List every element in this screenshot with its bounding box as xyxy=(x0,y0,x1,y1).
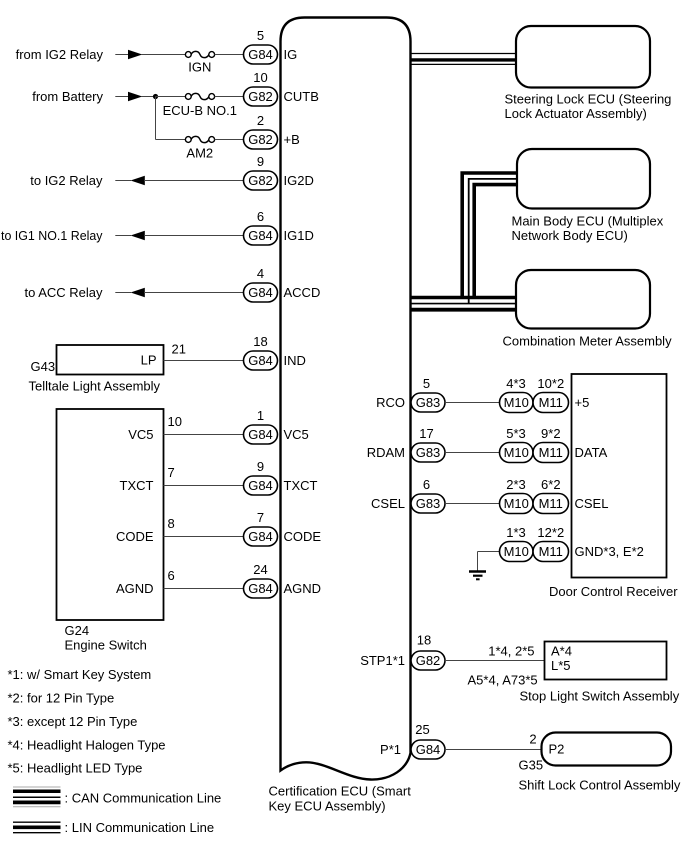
label: Telltale Light Assembly caption xyxy=(29,379,161,394)
pin number 5 xyxy=(257,28,264,43)
svg-text:G84: G84 xyxy=(248,427,273,442)
label: CSEL inside door control receiver xyxy=(575,496,609,511)
svg-text:: CAN Communication Line: : CAN Communication Line xyxy=(65,790,222,805)
svg-text:M11: M11 xyxy=(539,395,563,410)
svg-text:L*5: L*5 xyxy=(551,658,571,673)
label: VC5 inside engine switch xyxy=(128,427,153,442)
connector G82 pin +B xyxy=(244,130,278,149)
svg-text:G84: G84 xyxy=(248,529,273,544)
svg-text:G82: G82 xyxy=(248,89,273,104)
svg-text:Engine Switch: Engine Switch xyxy=(65,638,147,653)
component: Stop Light Switch Assembly box xyxy=(545,642,667,680)
note *5 xyxy=(8,761,143,776)
connector G82 pin CUTB xyxy=(244,87,278,106)
connector G84 pin TXCT xyxy=(244,476,278,495)
svg-text:G83: G83 xyxy=(416,445,441,460)
svg-text:GND*3, E*2: GND*3, E*2 xyxy=(575,544,644,559)
component: Door Control Receiver box xyxy=(572,374,667,578)
wire: CAN line branch up to main body ECU xyxy=(462,173,517,304)
wire: to IG2 Relay arrow from G82 pin 9 xyxy=(115,176,244,186)
label: TXCT pin name xyxy=(284,478,318,493)
node: to ACC Relay label xyxy=(24,285,103,300)
label: G35 designator xyxy=(519,758,544,773)
svg-text:to ACC Relay: to ACC Relay xyxy=(24,285,103,300)
wire: engine switch AGND to connector G84 xyxy=(164,588,245,590)
svg-text:AGND: AGND xyxy=(284,581,322,596)
svg-text:G35: G35 xyxy=(519,758,544,773)
svg-text:M11: M11 xyxy=(539,544,563,559)
svg-text:7: 7 xyxy=(257,510,264,525)
svg-text:6: 6 xyxy=(168,568,175,583)
svg-text:*2: for 12 Pin Type: *2: for 12 Pin Type xyxy=(8,691,115,706)
pin number 10 xyxy=(253,70,267,85)
svg-text:5: 5 xyxy=(257,28,264,43)
svg-text:5: 5 xyxy=(423,376,430,391)
wire: P to shift lock control xyxy=(445,749,542,751)
note *4 xyxy=(8,738,166,753)
label: Engine Switch caption xyxy=(65,638,147,653)
svg-text:5*3: 5*3 xyxy=(506,426,526,441)
svg-text:to IG1 NO.1 Relay: to IG1 NO.1 Relay xyxy=(1,228,103,243)
label: Shift Lock Control Assembly caption xyxy=(519,778,681,793)
svg-text:Key ECU Assembly): Key ECU Assembly) xyxy=(269,799,386,814)
label: IND pin name xyxy=(284,353,306,368)
svg-text:G84: G84 xyxy=(248,228,273,243)
fuse IGN xyxy=(185,51,214,74)
svg-text:G24: G24 xyxy=(65,623,90,638)
connector G82 pin IG2D xyxy=(244,171,278,190)
pin number 25 xyxy=(415,722,429,737)
wire: to ACC Relay arrow from G84 pin 4 xyxy=(115,288,244,298)
svg-text:2: 2 xyxy=(257,113,264,128)
wire: from IG2 Relay to fuse IGN xyxy=(115,50,185,60)
wire: ground to M10 xyxy=(478,552,501,571)
connector G83 pin RDAM xyxy=(411,443,445,462)
component: Combination Meter Assembly box xyxy=(516,270,650,329)
legend label: LIN Communication Line xyxy=(65,820,215,835)
label: IG1D pin name xyxy=(284,228,314,243)
component: Shift Lock Control Assembly box xyxy=(542,733,672,766)
pin number 10 (engine switch VC5) xyxy=(168,414,182,429)
svg-text:P2: P2 xyxy=(549,742,565,757)
label: A*4 inside stop light switch xyxy=(551,644,572,659)
label: DATA inside door control receiver xyxy=(575,445,608,460)
svg-text:4: 4 xyxy=(257,266,264,281)
label: CSEL pin name xyxy=(371,496,405,511)
svg-text:1: 1 xyxy=(257,408,264,423)
junction dot battery feed xyxy=(153,94,158,99)
label: VC5 pin name xyxy=(284,427,309,442)
svg-text:CODE: CODE xyxy=(284,529,322,544)
label: 1*4, 2*5 wire pins xyxy=(488,644,534,659)
node: to IG2 Relay label xyxy=(30,173,103,188)
svg-text:G83: G83 xyxy=(416,496,441,511)
svg-text:G84: G84 xyxy=(248,581,273,596)
pin number 6 xyxy=(423,477,430,492)
wire: CAN line horizontal run to combination meter xyxy=(412,298,517,310)
connector M11 (ground row) xyxy=(533,542,569,562)
svg-text:G84: G84 xyxy=(248,47,273,62)
svg-text:2: 2 xyxy=(529,731,536,746)
svg-text:10: 10 xyxy=(168,414,182,429)
svg-text:ECU-B NO.1: ECU-B NO.1 xyxy=(163,103,237,118)
label: G43 designator xyxy=(31,359,56,374)
svg-text:9: 9 xyxy=(257,154,264,169)
svg-text:IGN: IGN xyxy=(188,60,211,75)
ECU U1: Certification ECU (Smart Key ECU Assembly) body outline xyxy=(281,18,411,780)
pin number 7 xyxy=(257,510,264,525)
label: Main Body ECU caption xyxy=(512,213,664,243)
svg-text:7: 7 xyxy=(168,465,175,480)
pin number 9 xyxy=(257,154,264,169)
pin number 6 (engine switch AGND) xyxy=(168,568,175,583)
connector G83 pin RCO xyxy=(411,393,445,412)
svg-text:CSEL: CSEL xyxy=(371,496,405,511)
svg-text:A5*4, A73*5: A5*4, A73*5 xyxy=(468,673,538,688)
svg-text:from IG2 Relay: from IG2 Relay xyxy=(16,47,104,62)
legend symbol: LIN communication line xyxy=(13,822,61,833)
svg-text:Door Control Receiver: Door Control Receiver xyxy=(549,584,678,599)
label: Certification ECU caption xyxy=(269,784,412,814)
svg-text:G84: G84 xyxy=(248,353,273,368)
connector G83 pin CSEL xyxy=(411,494,445,513)
label: AGND inside engine switch xyxy=(116,581,154,596)
connector G84 pin CODE xyxy=(244,527,278,546)
svg-text:M10: M10 xyxy=(504,395,529,410)
svg-text:6: 6 xyxy=(257,209,264,224)
svg-text:Main Body ECU (Multiplex: Main Body ECU (Multiplex xyxy=(512,213,664,228)
svg-text:P*1: P*1 xyxy=(380,742,401,757)
connector M10 (RDAM row) xyxy=(500,443,534,463)
svg-text:Combination Meter Assembly: Combination Meter Assembly xyxy=(503,334,673,349)
connector G82 pin STP1 xyxy=(411,651,445,670)
pin number 2*3 xyxy=(506,477,526,492)
pin number 18 (STP1) xyxy=(417,632,431,647)
connector G84 pin ACCD xyxy=(244,283,278,302)
label: +5 inside door control receiver xyxy=(575,395,590,410)
pin number 8 (engine switch CODE) xyxy=(168,516,175,531)
pin number 9*2 xyxy=(541,426,561,441)
wire: G83 RCO to M10 xyxy=(445,402,500,404)
connector M11 (CSEL row) xyxy=(533,494,569,514)
wire: engine switch VC5 to connector G84 xyxy=(164,434,245,436)
svg-text:+5: +5 xyxy=(575,395,590,410)
svg-text:M10: M10 xyxy=(504,544,529,559)
svg-text:18: 18 xyxy=(417,632,431,647)
svg-text:IND: IND xyxy=(284,353,306,368)
label: +B pin name xyxy=(284,132,300,147)
svg-text:CODE: CODE xyxy=(116,529,154,544)
pin number 12*2 xyxy=(537,525,564,540)
svg-text:CSEL: CSEL xyxy=(575,496,609,511)
pin number 1*3 xyxy=(506,525,526,540)
svg-text:Stop Light Switch Assembly: Stop Light Switch Assembly xyxy=(520,689,680,704)
svg-text:Steering Lock ECU (Steering: Steering Lock ECU (Steering xyxy=(505,91,672,106)
ground symbol xyxy=(469,572,486,580)
svg-text:2*3: 2*3 xyxy=(506,477,526,492)
svg-text:G84: G84 xyxy=(416,742,441,757)
label: GND*3, E*2 inside door control receiver xyxy=(575,544,644,559)
wire: LIN communication line to steering lock ECU xyxy=(412,54,517,65)
pin number 4 xyxy=(257,266,264,281)
svg-text:1*3: 1*3 xyxy=(506,525,526,540)
svg-text:ACCD: ACCD xyxy=(284,285,321,300)
svg-text:8: 8 xyxy=(168,516,175,531)
label: Combination Meter Assembly caption xyxy=(503,334,673,349)
svg-text:M10: M10 xyxy=(504,445,529,460)
connector G84 pin IND xyxy=(244,351,278,370)
wire: battery junction branch down to AM2 xyxy=(156,97,186,140)
svg-text:TXCT: TXCT xyxy=(284,478,318,493)
svg-text:9: 9 xyxy=(257,459,264,474)
svg-text:to IG2 Relay: to IG2 Relay xyxy=(30,173,103,188)
connector G84 pin IG xyxy=(244,45,278,64)
node: from IG2 Relay label xyxy=(16,47,104,62)
svg-text:10: 10 xyxy=(253,70,267,85)
svg-text:*1: w/ Smart Key System: *1: w/ Smart Key System xyxy=(8,667,152,682)
svg-text:M11: M11 xyxy=(539,445,563,460)
pin number 4*3 xyxy=(506,376,526,391)
connector M10 (RCO row) xyxy=(500,393,534,413)
label: ACCD pin name xyxy=(284,285,321,300)
svg-text:10*2: 10*2 xyxy=(537,376,564,391)
svg-text:G83: G83 xyxy=(416,395,441,410)
label: STP1*1 pin name xyxy=(360,653,405,668)
pin number 7 (engine switch TXCT) xyxy=(168,465,175,480)
label: TXCT inside engine switch xyxy=(120,478,154,493)
connector M11 (RDAM row) xyxy=(533,443,569,463)
svg-text:*5: Headlight LED Type: *5: Headlight LED Type xyxy=(8,761,143,776)
pin number 18 xyxy=(253,334,267,349)
wire: from Battery to junction xyxy=(115,92,155,102)
wire: G83 CSEL to M10 xyxy=(445,503,500,505)
svg-text:: LIN Communication Line: : LIN Communication Line xyxy=(65,820,215,835)
label: RDAM pin name xyxy=(367,445,405,460)
legend label: CAN Communication Line xyxy=(65,790,222,805)
label: G24 designator xyxy=(65,623,90,638)
connector G84 pin VC5 xyxy=(244,425,278,444)
svg-text:Shift Lock Control Assembly: Shift Lock Control Assembly xyxy=(519,778,681,793)
label: CODE inside engine switch xyxy=(116,529,154,544)
pin number 10*2 xyxy=(537,376,564,391)
svg-text:G43: G43 xyxy=(31,359,56,374)
svg-text:25: 25 xyxy=(415,722,429,737)
wire: G83 RDAM to M10 xyxy=(445,452,500,454)
svg-text:Network Body ECU): Network Body ECU) xyxy=(512,228,628,243)
label: A5*4, A73*5 connector codes xyxy=(468,673,538,688)
svg-text:G82: G82 xyxy=(248,173,273,188)
fuse ECU-B NO.1 xyxy=(163,93,237,118)
svg-text:9*2: 9*2 xyxy=(541,426,561,441)
svg-text:12*2: 12*2 xyxy=(537,525,564,540)
svg-text:M11: M11 xyxy=(539,496,563,511)
label: CUTB pin name xyxy=(284,89,319,104)
wire: engine switch CODE to connector G84 xyxy=(164,536,245,538)
pin number 6 xyxy=(257,209,264,224)
wire: fuse IGN to connector G84 pin 5 xyxy=(215,54,245,56)
svg-text:*4: Headlight Halogen Type: *4: Headlight Halogen Type xyxy=(8,738,166,753)
label: CODE pin name xyxy=(284,529,322,544)
svg-text:RCO: RCO xyxy=(376,395,405,410)
label: P*1 pin name xyxy=(380,742,401,757)
svg-text:1*4, 2*5: 1*4, 2*5 xyxy=(488,644,534,659)
svg-text:LP: LP xyxy=(141,353,157,368)
component: Steering Lock ECU box xyxy=(516,26,650,88)
svg-text:G84: G84 xyxy=(248,478,273,493)
pin number 6*2 xyxy=(541,477,561,492)
label: RCO pin name xyxy=(376,395,405,410)
svg-text:+B: +B xyxy=(284,132,300,147)
svg-text:STP1*1: STP1*1 xyxy=(360,653,405,668)
svg-text:DATA: DATA xyxy=(575,445,608,460)
pin number 24 xyxy=(253,562,267,577)
svg-text:24: 24 xyxy=(253,562,267,577)
wire: engine switch TXCT to connector G84 xyxy=(164,485,245,487)
svg-text:Certification ECU (Smart: Certification ECU (Smart xyxy=(269,784,412,799)
pin number 1 xyxy=(257,408,264,423)
pin number 2 (shift lock P2) xyxy=(529,731,536,746)
svg-text:G82: G82 xyxy=(416,653,441,668)
pin number 5 xyxy=(423,376,430,391)
label: L*5 inside stop light switch xyxy=(551,658,571,673)
svg-text:TXCT: TXCT xyxy=(120,478,154,493)
svg-text:VC5: VC5 xyxy=(284,427,309,442)
connector G84 pin P xyxy=(411,740,445,759)
connector M10 (CSEL row) xyxy=(500,494,534,514)
label: Stop Light Switch Assembly caption xyxy=(520,689,680,704)
svg-text:21: 21 xyxy=(172,342,186,357)
svg-text:IG2D: IG2D xyxy=(284,173,314,188)
svg-text:Telltale Light Assembly: Telltale Light Assembly xyxy=(29,379,161,394)
component: Main Body ECU box xyxy=(517,149,650,209)
label: Steering Lock ECU caption xyxy=(505,91,672,121)
svg-text:6: 6 xyxy=(423,477,430,492)
connector M11 (RCO row) xyxy=(533,393,569,413)
node: from Battery label xyxy=(32,89,103,104)
label: IG pin name xyxy=(284,47,298,62)
label: P2 inside shift lock box xyxy=(549,742,565,757)
pin number 5*3 xyxy=(506,426,526,441)
wire: to IG1 NO.1 Relay arrow from G84 pin 6 xyxy=(115,231,244,241)
label: Door Control Receiver caption xyxy=(549,584,678,599)
label: AGND pin name xyxy=(284,581,322,596)
wire: fuse AM2 to connector G82 pin 2 xyxy=(215,139,245,141)
component G43: Telltale Light Assembly box xyxy=(57,345,164,375)
svg-text:4*3: 4*3 xyxy=(506,376,526,391)
pin number 21 (telltale LP output) xyxy=(172,342,186,357)
svg-text:AGND: AGND xyxy=(116,581,154,596)
wire: junction to fuse ECU-B NO.1 xyxy=(156,96,186,98)
wire: STP1 to stop light switch xyxy=(445,660,545,662)
label: LP pin inside telltale box xyxy=(141,353,157,368)
svg-text:17: 17 xyxy=(419,426,433,441)
pin number 17 xyxy=(419,426,433,441)
label: IG2D pin name xyxy=(284,173,314,188)
svg-text:CUTB: CUTB xyxy=(284,89,319,104)
svg-text:IG: IG xyxy=(284,47,298,62)
wire: telltale LP to connector G84 pin 18 xyxy=(164,360,245,362)
svg-text:RDAM: RDAM xyxy=(367,445,405,460)
connector G84 pin AGND xyxy=(244,579,278,598)
note *1 xyxy=(8,667,152,682)
svg-text:from Battery: from Battery xyxy=(32,89,103,104)
connector M10 (ground row) xyxy=(500,542,534,562)
connector G84 pin IG1D xyxy=(244,226,278,245)
svg-text:G84: G84 xyxy=(248,285,273,300)
svg-text:IG1D: IG1D xyxy=(284,228,314,243)
pin number 2 xyxy=(257,113,264,128)
fuse AM2 xyxy=(185,136,214,160)
svg-text:M10: M10 xyxy=(504,496,529,511)
pin number 9 xyxy=(257,459,264,474)
note *3 xyxy=(8,714,138,729)
svg-text:Lock Actuator Assembly): Lock Actuator Assembly) xyxy=(505,106,647,121)
note *2 xyxy=(8,691,115,706)
svg-text:VC5: VC5 xyxy=(128,427,153,442)
svg-text:6*2: 6*2 xyxy=(541,477,561,492)
svg-text:18: 18 xyxy=(253,334,267,349)
svg-text:G82: G82 xyxy=(248,132,273,147)
svg-text:A*4: A*4 xyxy=(551,644,572,659)
node: to IG1 NO.1 Relay label xyxy=(1,228,103,243)
svg-text:AM2: AM2 xyxy=(186,146,213,161)
component G24: Engine Switch box xyxy=(57,409,164,620)
legend symbol: CAN communication line xyxy=(13,787,61,807)
svg-text:*3: except 12 Pin Type: *3: except 12 Pin Type xyxy=(8,714,138,729)
wire: fuse to connector G82 pin 10 xyxy=(215,96,245,98)
